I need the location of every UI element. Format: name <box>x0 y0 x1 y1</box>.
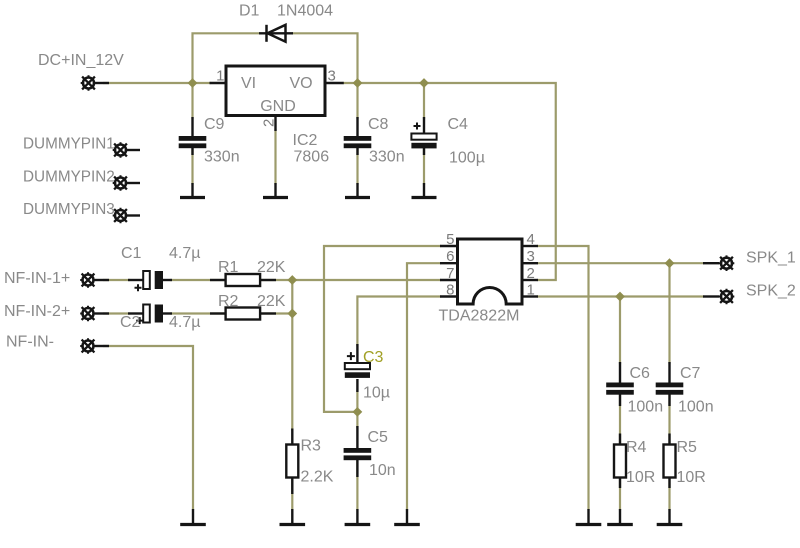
svg-text:TDA2822M: TDA2822M <box>439 308 520 325</box>
svg-text:C1: C1 <box>121 245 142 262</box>
svg-text:C7: C7 <box>680 365 701 382</box>
svg-text:100n: 100n <box>628 399 664 416</box>
svg-text:7806: 7806 <box>294 149 330 166</box>
svg-text:1: 1 <box>527 282 535 299</box>
svg-text:R4: R4 <box>626 439 647 456</box>
svg-text:7: 7 <box>446 265 454 282</box>
svg-text:22K: 22K <box>257 293 286 310</box>
svg-text:C5: C5 <box>368 429 389 446</box>
svg-text:DUMMYPIN1: DUMMYPIN1 <box>23 136 115 153</box>
svg-text:IC2: IC2 <box>293 132 318 149</box>
svg-text:3: 3 <box>527 248 535 265</box>
svg-text:C2: C2 <box>120 314 141 331</box>
svg-text:1N4004: 1N4004 <box>277 3 333 20</box>
svg-text:C3: C3 <box>363 349 384 366</box>
svg-text:NF-IN-2+: NF-IN-2+ <box>4 303 70 320</box>
svg-text:R3: R3 <box>301 438 322 455</box>
svg-text:330n: 330n <box>204 149 240 166</box>
svg-text:6: 6 <box>446 248 454 265</box>
svg-text:DUMMYPIN3: DUMMYPIN3 <box>23 201 115 218</box>
svg-text:4.7µ: 4.7µ <box>169 314 200 331</box>
svg-text:GND: GND <box>260 98 296 115</box>
svg-text:C4: C4 <box>448 116 469 133</box>
svg-text:2.2K: 2.2K <box>301 469 334 486</box>
svg-text:5: 5 <box>446 231 454 248</box>
svg-text:NF-IN-1+: NF-IN-1+ <box>4 270 70 287</box>
svg-text:VO: VO <box>289 75 312 92</box>
svg-text:SPK_2: SPK_2 <box>746 283 796 300</box>
svg-text:2: 2 <box>527 265 535 282</box>
svg-text:R1: R1 <box>218 259 239 276</box>
svg-text:10n: 10n <box>369 462 396 479</box>
svg-text:1: 1 <box>216 68 224 85</box>
svg-text:C9: C9 <box>204 116 225 133</box>
svg-text:VI: VI <box>241 75 256 92</box>
svg-text:10R: 10R <box>626 469 655 486</box>
svg-text:3: 3 <box>328 68 336 85</box>
svg-text:10R: 10R <box>677 469 706 486</box>
svg-text:DC+IN_12V: DC+IN_12V <box>38 52 124 69</box>
svg-text:D1: D1 <box>239 3 260 20</box>
svg-text:100µ: 100µ <box>449 150 485 167</box>
svg-text:2: 2 <box>261 119 278 127</box>
svg-text:330n: 330n <box>369 149 405 166</box>
svg-text:DUMMYPIN2: DUMMYPIN2 <box>23 169 115 186</box>
svg-text:8: 8 <box>446 282 454 299</box>
svg-text:10µ: 10µ <box>363 385 390 402</box>
svg-text:4: 4 <box>527 231 535 248</box>
svg-text:NF-IN-: NF-IN- <box>6 334 54 351</box>
svg-text:22K: 22K <box>257 259 286 276</box>
svg-text:SPK_1: SPK_1 <box>746 250 796 267</box>
svg-text:R2: R2 <box>218 293 239 310</box>
svg-text:R5: R5 <box>677 439 698 456</box>
svg-text:C8: C8 <box>368 116 389 133</box>
svg-text:C6: C6 <box>630 365 651 382</box>
svg-text:100n: 100n <box>678 399 714 416</box>
svg-text:4.7µ: 4.7µ <box>169 245 200 262</box>
